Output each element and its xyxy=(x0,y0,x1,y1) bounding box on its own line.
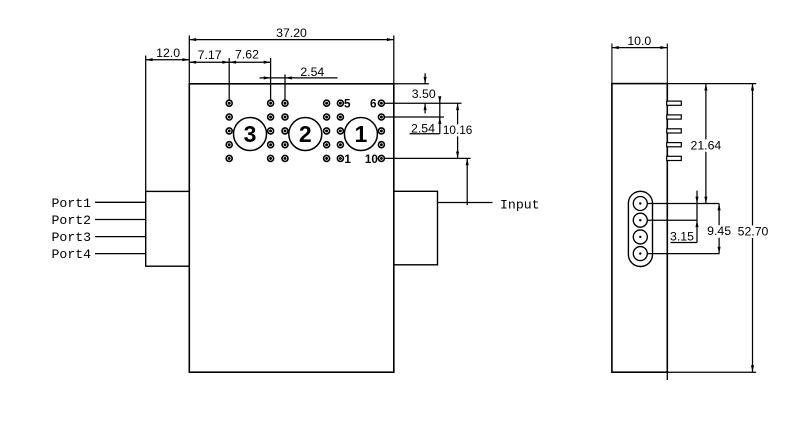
pin pad col C row 4 xyxy=(282,142,288,148)
pin pad col B row 1 xyxy=(268,100,274,106)
dimension 9.45 (fiber 1 to fiber 4) xyxy=(718,204,720,254)
pin pad col D row 1 xyxy=(324,100,330,106)
dimension 10.0 (side width) xyxy=(611,44,613,84)
splitter stage circle 3 xyxy=(234,118,267,151)
extension line fiber 4 xyxy=(648,253,720,255)
pin pad col A row 1 xyxy=(226,100,232,106)
svg-text:Input: Input xyxy=(500,197,540,212)
pin pad col F row 1 xyxy=(378,100,384,106)
extension line fiber 2 xyxy=(648,219,697,221)
svg-text:2.54: 2.54 xyxy=(300,65,324,79)
extension line pin row2 xyxy=(385,116,444,118)
svg-text:5: 5 xyxy=(344,98,351,111)
pin pad col C row 2 xyxy=(282,114,288,120)
wire Port2 lead xyxy=(95,219,146,221)
fiber ferrule stadium outline xyxy=(628,191,652,266)
svg-text:Port2: Port2 xyxy=(52,213,92,228)
dimension 3.50 (top edge to pin row1) xyxy=(424,73,426,84)
side view body outline xyxy=(612,84,667,373)
pin pad col E row 4 xyxy=(337,142,343,148)
dimension 12.0 (left block width) xyxy=(145,56,147,192)
pin pad col F row 5 xyxy=(378,155,384,161)
svg-text:1: 1 xyxy=(355,121,368,147)
pin lead side view row 2 xyxy=(667,115,682,119)
svg-text:2: 2 xyxy=(299,121,312,147)
pin pad col E row 1 xyxy=(337,100,343,106)
dimension 2.54 (pin row1 to row2) xyxy=(439,97,441,134)
side view right edge overshoot xyxy=(666,372,668,380)
svg-text:Port3: Port3 xyxy=(52,230,92,245)
extension line fiber 1 xyxy=(648,203,720,205)
svg-text:7.17: 7.17 xyxy=(198,48,222,62)
extension line side top xyxy=(667,83,756,85)
wire Port3 lead xyxy=(95,236,146,238)
fiber port 3 side view xyxy=(633,230,647,244)
svg-text:9.45: 9.45 xyxy=(707,224,731,238)
pin pad col C row 3 xyxy=(282,128,288,134)
svg-text:3.50: 3.50 xyxy=(412,87,436,101)
pin pad col B row 2 xyxy=(268,114,274,120)
pin pad col C row 1 xyxy=(282,100,288,106)
pin pad col E row 2 xyxy=(337,114,343,120)
svg-text:10.0: 10.0 xyxy=(627,34,651,48)
pin pad col B row 4 xyxy=(268,142,274,148)
pin pad col A row 5 xyxy=(226,155,232,161)
svg-text:10.16: 10.16 xyxy=(443,123,473,137)
dimension 2.54 (pin col B to col C) xyxy=(284,75,286,100)
svg-text:52.70: 52.70 xyxy=(738,225,769,239)
svg-text:7.62: 7.62 xyxy=(235,48,259,62)
pin pad col F row 2 xyxy=(378,114,384,120)
pin pad col F row 3 xyxy=(378,128,384,134)
pin pad col F row 4 xyxy=(378,142,384,148)
svg-text:3: 3 xyxy=(244,121,257,147)
extension line body top right xyxy=(394,83,429,85)
pin pad col E row 5 xyxy=(337,155,343,161)
right input fiber block xyxy=(394,191,438,264)
dimension 3.15 (fiber pitch) xyxy=(696,191,698,243)
svg-text:37.20: 37.20 xyxy=(276,26,307,40)
svg-text:3.15: 3.15 xyxy=(670,229,694,243)
pin pad col D row 3 xyxy=(324,128,330,134)
wire Port1 lead xyxy=(95,201,146,203)
main body outline (front view) xyxy=(189,84,393,372)
svg-text:Port4: Port4 xyxy=(52,247,92,262)
leader from pin10 row to input line xyxy=(466,158,468,205)
dimension 21.64 (top to fiber 1) xyxy=(705,84,707,204)
pin lead side view row 1 xyxy=(667,101,682,105)
extension line pin row5 (pin 10) xyxy=(385,157,471,159)
fiber port 4 side view xyxy=(633,247,647,261)
pin pad col B row 3 xyxy=(268,128,274,134)
left output fiber block xyxy=(146,191,190,266)
pin pad col A row 3 xyxy=(226,128,232,134)
pin pad col D row 4 xyxy=(324,142,330,148)
fiber port 2 side view xyxy=(633,213,647,227)
svg-text:6: 6 xyxy=(370,98,377,111)
pin lead side view row 4 xyxy=(667,143,682,147)
extension line side bottom xyxy=(667,371,756,373)
pin pad col A row 2 xyxy=(226,114,232,120)
pin pad col D row 2 xyxy=(324,114,330,120)
dimension 7.17 (edge to pin col A) xyxy=(228,58,230,100)
dimension 7.62 (pin col A to col B) xyxy=(270,58,272,100)
pin lead side view row 5 xyxy=(667,156,682,160)
dimension 37.20 (body width) xyxy=(188,36,190,84)
pin pad col B row 5 xyxy=(268,155,274,161)
pin pad col E row 3 xyxy=(337,128,343,134)
splitter stage circle 2 xyxy=(289,118,322,151)
svg-text:Port1: Port1 xyxy=(52,196,92,211)
splitter stage circle 1 xyxy=(344,118,377,151)
svg-text:21.64: 21.64 xyxy=(691,138,722,152)
pin lead side view row 3 xyxy=(667,129,682,133)
dimension 10.16 (pin row1 to row5) xyxy=(457,103,459,158)
fiber port 1 side view xyxy=(633,197,647,211)
svg-text:1: 1 xyxy=(344,153,351,166)
svg-text:12.0: 12.0 xyxy=(156,46,180,60)
pin pad col C row 5 xyxy=(282,155,288,161)
extension line pin row1 (pin 6) xyxy=(385,102,462,104)
dimension 52.70 (side height) xyxy=(752,84,754,373)
pin pad col D row 5 xyxy=(324,155,330,161)
svg-text:2.54: 2.54 xyxy=(411,122,435,136)
wire Port4 lead xyxy=(95,253,146,255)
svg-text:10: 10 xyxy=(365,153,379,166)
pin pad col A row 4 xyxy=(226,142,232,148)
wire Input lead xyxy=(438,202,493,204)
